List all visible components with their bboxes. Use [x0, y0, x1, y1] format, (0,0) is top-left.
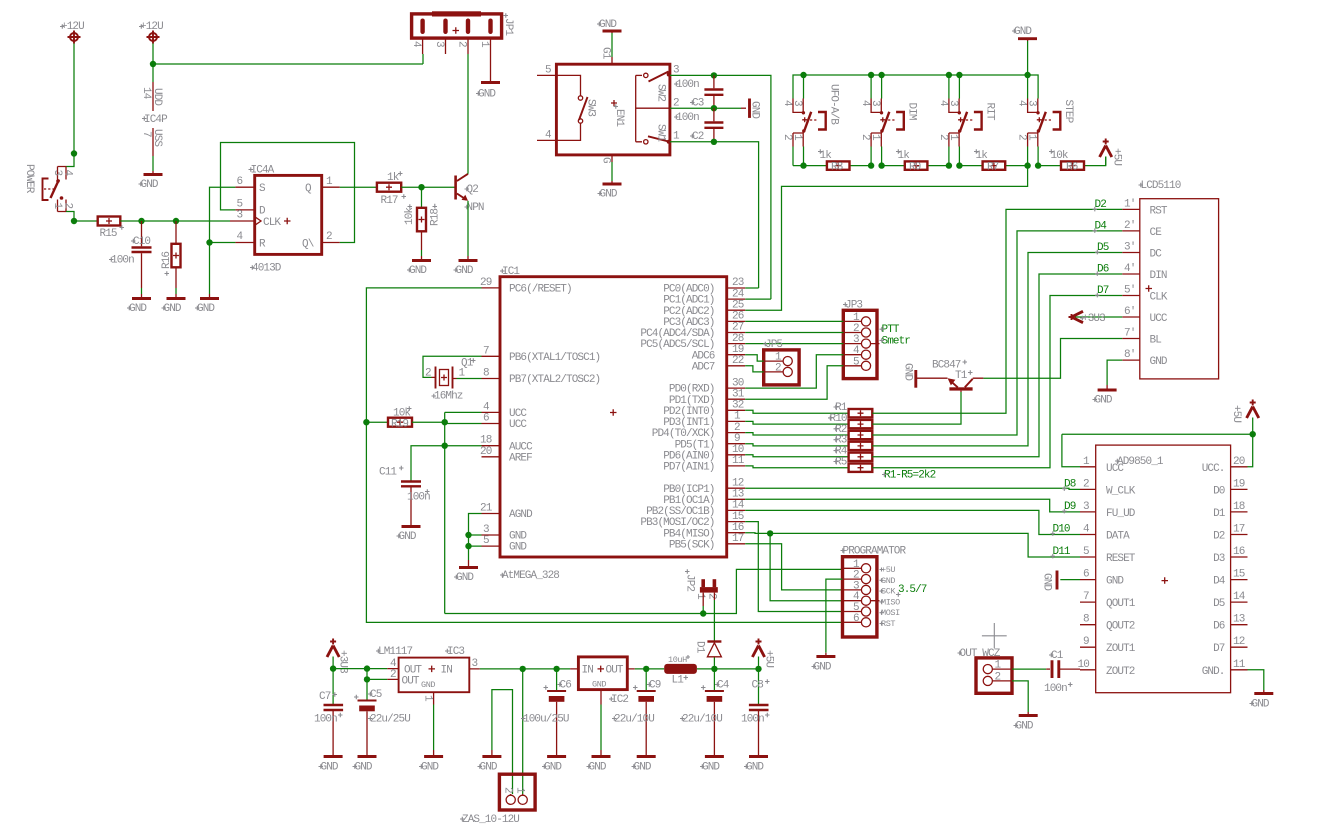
svg-text:GND: GND: [421, 762, 439, 774]
node junction D1-C4: [711, 666, 717, 672]
node junction VCC-R19: [442, 419, 448, 425]
svg-text:7: 7: [483, 346, 489, 358]
svg-text:IC4P: IC4P: [144, 114, 168, 126]
svg-text:2: 2: [995, 671, 1001, 683]
svg-text:EN1: EN1: [613, 109, 625, 127]
svg-text:D1: D1: [1213, 508, 1226, 520]
node junction ZAS: [520, 666, 526, 672]
svg-text:GND: GND: [902, 363, 914, 381]
svg-text:IN: IN: [441, 665, 453, 677]
node junction C5-out2: [364, 676, 370, 682]
svg-text:R18: R18: [430, 209, 442, 226]
wire PD5 to R3: [745, 444, 848, 446]
svg-text:16Mhz: 16Mhz: [434, 391, 463, 403]
svg-text:C8: C8: [752, 680, 764, 692]
op-amp IC4A 4013D flip-flop: [230, 165, 340, 275]
switch STEP: [1016, 99, 1075, 166]
svg-text:6: 6: [237, 176, 243, 188]
svg-text:GND.: GND.: [1202, 666, 1225, 678]
svg-text:17: 17: [1233, 524, 1245, 536]
svg-text:UFO-A/B: UFO-A/B: [828, 84, 840, 125]
ic IC4P power pins: [140, 64, 168, 171]
resistor R1: [834, 402, 873, 417]
svg-text:BL: BL: [1150, 335, 1162, 347]
wire to R pin: [210, 242, 236, 244]
wire bottom ladder bus: [793, 157, 1106, 166]
svg-text:GND: GND: [456, 265, 474, 277]
svg-text:PD3(INT1): PD3(INT1): [663, 417, 714, 429]
svg-text:D6: D6: [1213, 621, 1225, 633]
svg-text:JP5: JP5: [765, 339, 782, 351]
svg-text:MOSI: MOSI: [881, 608, 900, 618]
svg-text:22u/25U: 22u/25U: [370, 714, 410, 726]
svg-text:GND: GND: [702, 762, 720, 774]
wire D8: [745, 488, 1080, 489]
wire PD4 to R2: [745, 433, 848, 435]
svg-text:GND: GND: [1014, 26, 1032, 38]
node junction P1-switch: [71, 150, 77, 156]
svg-text:18: 18: [1233, 501, 1245, 513]
svg-text:100n: 100n: [1044, 683, 1067, 695]
svg-text:D7: D7: [1213, 643, 1225, 655]
wire R5 to LCD CLK: [872, 296, 1122, 468]
resistor R8 1k: [818, 149, 850, 173]
wire Q to R17: [340, 186, 377, 188]
svg-text:R5: R5: [835, 457, 847, 469]
svg-text:R15: R15: [100, 228, 117, 240]
svg-text:2: 2: [775, 362, 781, 374]
rotary encoder EN1: [537, 47, 680, 163]
svg-text:SW3: SW3: [585, 99, 597, 116]
node junction C2 bottom: [711, 139, 717, 145]
ground IC2: [587, 750, 611, 774]
regulator IC2: [570, 657, 635, 706]
ground Q2: [454, 256, 478, 277]
capacitor C1 100n: [1012, 650, 1080, 695]
connector OUT_WCZ: [958, 648, 1013, 693]
svg-text:D3: D3: [1213, 553, 1225, 565]
resistor R16: [161, 221, 181, 294]
svg-text:R7: R7: [987, 162, 999, 174]
svg-text:5: 5: [853, 356, 859, 368]
ground LCD: [1093, 385, 1117, 407]
svg-text:5: 5: [1083, 546, 1089, 558]
svg-text:1': 1': [1124, 198, 1135, 210]
wire G bottom: [611, 162, 613, 181]
svg-text:13: 13: [1233, 614, 1245, 626]
capacitor C11 100n: [379, 466, 430, 521]
svg-text:22: 22: [732, 355, 744, 367]
wire D10: [745, 510, 1080, 534]
node junction C10: [138, 218, 144, 224]
svg-text:6: 6: [483, 413, 489, 425]
svg-text:UCC: UCC: [1106, 463, 1124, 475]
node junction 3V3-C7: [330, 665, 336, 671]
inductor L1 10uH: [664, 655, 697, 687]
resistor R5: [834, 457, 873, 472]
svg-text:GND: GND: [749, 101, 761, 119]
svg-text:5': 5': [1124, 285, 1135, 297]
svg-text:LCD5110: LCD5110: [1141, 180, 1181, 192]
ic AD9850_1: [1078, 445, 1248, 693]
resistor R3: [834, 435, 873, 450]
svg-text:GND: GND: [1041, 573, 1053, 591]
svg-text:6: 6: [1083, 569, 1089, 581]
resistor R6 10k: [1049, 149, 1084, 173]
svg-text:C9: C9: [649, 680, 661, 692]
svg-text:1k: 1k: [387, 172, 400, 184]
node junction MISO branch: [767, 530, 773, 536]
svg-text:100n: 100n: [676, 79, 699, 91]
svg-text:R16: R16: [161, 252, 173, 269]
svg-text:T1: T1: [955, 370, 968, 382]
resistor R15: [98, 217, 124, 241]
resistor R7 1k: [974, 149, 1005, 173]
wire 3V3 rail: [333, 668, 387, 670]
svg-text:GND: GND: [1106, 576, 1124, 588]
svg-text:2: 2: [425, 368, 431, 380]
svg-text:POWER: POWER: [23, 164, 35, 194]
svg-text:29: 29: [480, 277, 492, 289]
svg-text:D11: D11: [1053, 546, 1071, 558]
svg-text:PB5(SCK): PB5(SCK): [669, 539, 715, 551]
svg-text:LM1117: LM1117: [378, 646, 413, 658]
svg-text:OUT: OUT: [606, 665, 624, 677]
wire R10 to T1 base: [872, 392, 961, 424]
wire SCK to programmer: [745, 544, 842, 590]
resistor R2: [834, 424, 873, 439]
svg-text:100n: 100n: [741, 714, 764, 726]
wire +5V to AD9850 VCC: [1062, 434, 1253, 467]
ground T1: [902, 363, 916, 388]
wire R17 to base: [401, 186, 454, 188]
svg-text:100n: 100n: [407, 492, 430, 504]
node junction base-R18: [418, 184, 424, 190]
node 3.5/7 label: [896, 584, 927, 597]
ground AD9850 pin11: [1250, 690, 1274, 711]
wire 5V input rail: [480, 668, 570, 670]
svg-text:15: 15: [1233, 569, 1245, 581]
svg-text:+5U: +5U: [1111, 148, 1123, 165]
capacitor C9 22u/10V: [612, 669, 661, 750]
svg-text:C1: C1: [1051, 650, 1064, 662]
node junction R16: [173, 218, 179, 224]
ground R18: [407, 256, 431, 277]
svg-text:GND: GND: [129, 303, 147, 315]
svg-text:5: 5: [483, 535, 489, 547]
svg-text:3.5/7: 3.5/7: [898, 584, 927, 596]
svg-text:Q1: Q1: [461, 358, 474, 370]
svg-text:PB6(XTAL1/TOSC1): PB6(XTAL1/TOSC1): [509, 352, 600, 364]
node junction C9: [643, 666, 649, 672]
crystal Q1 16Mhz: [423, 356, 482, 402]
wire to R15: [74, 220, 98, 222]
node junction +5V: [1250, 431, 1256, 437]
node junction C3 top: [711, 72, 717, 78]
jumper JP2: [684, 569, 718, 641]
svg-text:ZOUT1: ZOUT1: [1106, 643, 1136, 655]
wire R1 to LCD RST: [872, 209, 1122, 413]
svg-text:D2: D2: [1213, 531, 1225, 543]
node junctions top bus: [800, 72, 1031, 78]
wire +12V P2 to rail: [153, 44, 423, 65]
svg-text:GND: GND: [141, 179, 159, 191]
node junction GND3: [465, 532, 471, 538]
capacitor C8 100n: [741, 669, 770, 750]
svg-text:10k: 10k: [404, 207, 416, 225]
wire D11 PB4 net: [745, 533, 1080, 557]
svg-text:ZAS_10-12U: ZAS_10-12U: [462, 814, 519, 826]
svg-text:UCC.: UCC.: [1202, 463, 1225, 475]
ground rail mid: [512, 749, 514, 751]
svg-text:GND: GND: [1150, 356, 1168, 368]
svg-text:GND: GND: [746, 762, 764, 774]
svg-text:D0: D0: [1213, 485, 1225, 497]
ground programmer: [812, 653, 836, 674]
svg-text:3: 3: [51, 170, 63, 176]
svg-text:2: 2: [502, 787, 514, 793]
node R1-R5=2k2 label: [882, 470, 936, 482]
switch DIM: [859, 99, 918, 166]
svg-text:R1-R5=2k2: R1-R5=2k2: [884, 470, 936, 482]
svg-text:4013D: 4013D: [252, 263, 282, 275]
svg-text:8: 8: [1083, 614, 1089, 626]
wire out2: [367, 669, 387, 700]
svg-text:3': 3': [1124, 242, 1135, 254]
svg-text:DATA: DATA: [1106, 531, 1130, 543]
svg-text:+3U3: +3U3: [1082, 313, 1105, 325]
svg-text:C11: C11: [379, 467, 397, 479]
svg-text:3: 3: [1026, 100, 1038, 106]
ground AD9850 pin6: [1041, 571, 1081, 592]
svg-text:5: 5: [545, 65, 551, 77]
svg-text:4': 4': [1124, 263, 1135, 275]
wire CLK net: [120, 220, 230, 222]
regulator IC3 LM1117: [376, 646, 480, 705]
connector ZAS_10-12V: [460, 774, 535, 826]
node junction GND5: [465, 543, 471, 549]
svg-text:CE: CE: [1150, 227, 1163, 239]
svg-text:22u/10U: 22u/10U: [682, 714, 722, 726]
wire AGND net: [469, 514, 482, 561]
switch RIT: [937, 99, 996, 166]
svg-text:GND: GND: [321, 762, 339, 774]
node D8 label: [1062, 479, 1076, 491]
wire PD3 to R10: [745, 421, 848, 424]
wire S-R tie: [210, 187, 236, 294]
transistor Q2 NPN: [454, 174, 484, 214]
svg-text:3: 3: [673, 65, 679, 77]
svg-text:+5U: +5U: [763, 650, 775, 667]
ground C4: [700, 750, 724, 774]
resistor R18 10k: [404, 187, 442, 256]
resistor R10: [828, 413, 872, 428]
svg-text:GND: GND: [478, 89, 496, 101]
svg-text:STEP: STEP: [1062, 100, 1074, 124]
svg-text:OUT: OUT: [402, 676, 420, 688]
svg-text:UCC: UCC: [509, 419, 527, 431]
svg-text:14: 14: [1233, 591, 1246, 603]
wire ZAS pin1: [522, 669, 524, 794]
svg-text:PROGRAMATOR: PROGRAMATOR: [843, 546, 907, 558]
svg-text:R19: R19: [391, 419, 408, 431]
ic IC1 AtMEGA_328: [480, 266, 745, 582]
resistor R9 1k: [896, 149, 927, 173]
wire RESET net: [366, 288, 842, 623]
wire VCC net: [412, 412, 482, 613]
supply +12V P2: [139, 21, 163, 44]
wire PC3 to JP3 pin1: [745, 320, 843, 322]
wire OUT_WCZ pin2 gnd: [1012, 681, 1028, 712]
svg-text:100n: 100n: [314, 714, 337, 726]
svg-text:Q2: Q2: [467, 184, 479, 196]
svg-text:GND: GND: [634, 762, 652, 774]
supply +5V AD9850: [1230, 400, 1259, 435]
svg-text:GND: GND: [1095, 395, 1113, 407]
svg-text:IC4A: IC4A: [251, 165, 275, 177]
svg-text:RST: RST: [1150, 205, 1168, 217]
svg-text:2: 2: [326, 231, 332, 243]
svg-text:3: 3: [1083, 501, 1089, 513]
svg-text:GND: GND: [509, 542, 527, 554]
capacitor C4 22u/10V: [680, 669, 730, 750]
node junction R-pin: [206, 239, 212, 245]
ground R16: [162, 294, 186, 315]
connector PROGRAMATOR: [841, 546, 907, 638]
wire EN1 pin1 net: [670, 142, 759, 288]
svg-text:6: 6: [853, 613, 859, 625]
svg-text:3: 3: [237, 210, 243, 222]
wire T1 collector to LCD BL: [983, 339, 1122, 379]
wire PC2 to STEP ladder: [745, 166, 1027, 311]
ground C6: [542, 750, 566, 774]
capacitor C10 100n: [109, 221, 152, 294]
node junction JP2 pin1: [700, 610, 706, 616]
resistor R17 1k: [377, 171, 406, 207]
connector JP1: [410, 11, 514, 81]
svg-text:GND: GND: [409, 265, 427, 277]
svg-text:7': 7': [1124, 328, 1135, 340]
svg-text:PD7(AIN1): PD7(AIN1): [663, 462, 714, 474]
wire R2 to LCD CE: [872, 231, 1122, 435]
svg-text:GND: GND: [355, 762, 373, 774]
svg-text:R9: R9: [909, 162, 921, 174]
svg-text:DIN: DIN: [1150, 270, 1167, 282]
capacitor C6 100u/25V: [521, 669, 571, 750]
svg-text:RIT: RIT: [983, 103, 995, 121]
svg-text:ZOUT2: ZOUT2: [1106, 666, 1135, 678]
switch VFO-A/B: [781, 84, 840, 166]
svg-text:+5U: +5U: [1230, 405, 1242, 422]
ground EN1 pin2: [741, 99, 761, 120]
svg-text:D10: D10: [1053, 524, 1070, 536]
svg-text:GND: GND: [421, 680, 435, 690]
svg-text:R17: R17: [381, 195, 398, 207]
ground EN1 G: [598, 181, 622, 201]
node value cross OUT_WCZ: [982, 623, 1007, 648]
svg-text:C7: C7: [319, 691, 331, 703]
svg-text:6': 6': [1124, 306, 1135, 318]
svg-text:IC3: IC3: [447, 646, 464, 658]
node junction P2: [150, 61, 156, 67]
svg-text:2: 2: [456, 41, 468, 47]
svg-text:20: 20: [1233, 456, 1245, 468]
connector JP3: [843, 300, 880, 379]
node D7 label: [1095, 285, 1109, 297]
node Smetr label: [880, 335, 911, 347]
resistor R19 10k: [388, 406, 412, 430]
svg-text:IC1: IC1: [502, 266, 520, 278]
svg-text:CLK: CLK: [263, 217, 281, 229]
svg-text:3: 3: [947, 100, 959, 106]
ground IC3: [419, 750, 443, 774]
wire R3 to LCD DC: [872, 253, 1122, 446]
ground JP1 pin1: [476, 83, 500, 101]
svg-text:NPN: NPN: [467, 202, 484, 214]
svg-text:9: 9: [1083, 636, 1089, 648]
node D9 label: [1062, 501, 1076, 513]
wire D9: [745, 499, 1080, 512]
svg-text:UCC: UCC: [1150, 313, 1168, 325]
svg-text:2: 2: [390, 669, 396, 681]
wire EN1 pin2 gnd net: [670, 107, 741, 109]
node junction C5: [364, 665, 370, 671]
ground C7: [319, 750, 343, 774]
node D10 label: [1051, 524, 1070, 536]
svg-text:+3U3: +3U3: [337, 650, 349, 673]
wire R19 left: [366, 421, 388, 423]
svg-text:8': 8': [1124, 349, 1135, 361]
svg-text:11: 11: [1233, 659, 1246, 671]
ground OUT_WCZ: [1014, 712, 1038, 733]
node junction C3 bottom: [711, 105, 717, 111]
wire +12V P1 down: [73, 44, 75, 154]
wire PD6 to R4: [745, 455, 848, 457]
wire PD0 to JP3 pin4: [745, 355, 843, 388]
svg-text:GND: GND: [544, 762, 562, 774]
svg-text:3: 3: [869, 100, 881, 106]
svg-text:GND: GND: [1016, 721, 1034, 733]
ic LCD5110: [1122, 180, 1218, 379]
svg-text:G: G: [600, 157, 612, 163]
ground C11: [397, 521, 421, 543]
svg-text:7: 7: [140, 131, 152, 137]
svg-text:W_CLK: W_CLK: [1106, 485, 1136, 497]
svg-text:100n: 100n: [111, 255, 134, 267]
node D2 label: [1093, 199, 1107, 211]
wire VCC to programmer pin1: [445, 569, 843, 613]
node junction AVCC: [442, 443, 448, 449]
svg-text:DC: DC: [1150, 249, 1163, 261]
svg-text:PC2(ADC2): PC2(ADC2): [663, 306, 714, 318]
svg-text:ADC7: ADC7: [692, 361, 715, 373]
svg-text:UDD: UDD: [151, 88, 163, 106]
svg-text:GND: GND: [600, 189, 618, 201]
ground EN1 G1 top: [597, 19, 622, 33]
svg-text:GND: GND: [592, 680, 606, 690]
svg-text:GND: GND: [1252, 699, 1270, 711]
svg-text:SW1: SW1: [655, 124, 667, 142]
ground IC4P: [139, 171, 163, 191]
svg-text:CLK: CLK: [1150, 292, 1168, 304]
capacitor C2 100n: [674, 108, 723, 143]
node D11 label: [1051, 546, 1071, 558]
node junctions bottom bus: [800, 162, 1041, 168]
svg-text:Q\: Q\: [302, 238, 314, 250]
ground ZAS: [478, 750, 502, 774]
node junction switch-R15: [71, 218, 77, 224]
svg-text:GND: GND: [456, 572, 474, 584]
